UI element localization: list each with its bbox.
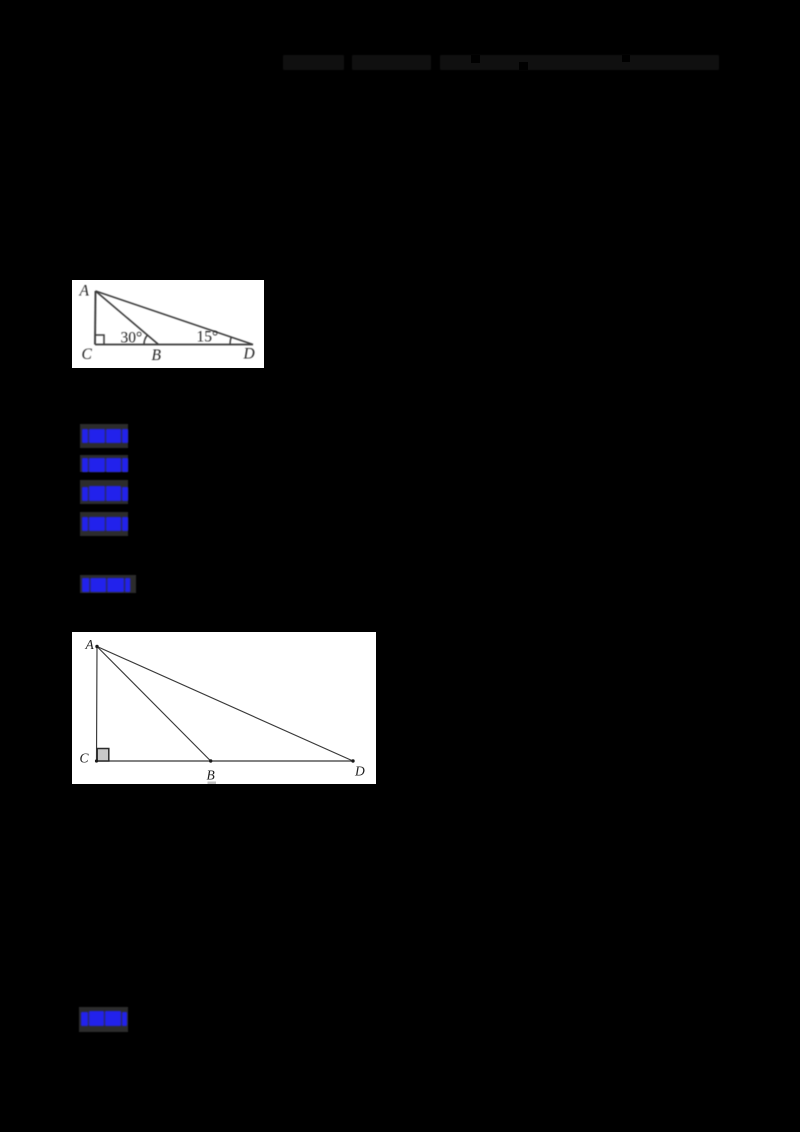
svg-text:D: D bbox=[354, 764, 365, 779]
svg-text:B: B bbox=[207, 768, 215, 783]
svg-text:B: B bbox=[152, 347, 162, 364]
svg-text:15°: 15° bbox=[197, 329, 219, 346]
svg-text:C: C bbox=[80, 751, 90, 766]
svg-text:C: C bbox=[82, 346, 93, 363]
svg-text:D: D bbox=[243, 346, 255, 363]
svg-text:30°: 30° bbox=[121, 330, 143, 347]
svg-text:A: A bbox=[79, 283, 90, 300]
svg-text:A: A bbox=[85, 637, 95, 652]
